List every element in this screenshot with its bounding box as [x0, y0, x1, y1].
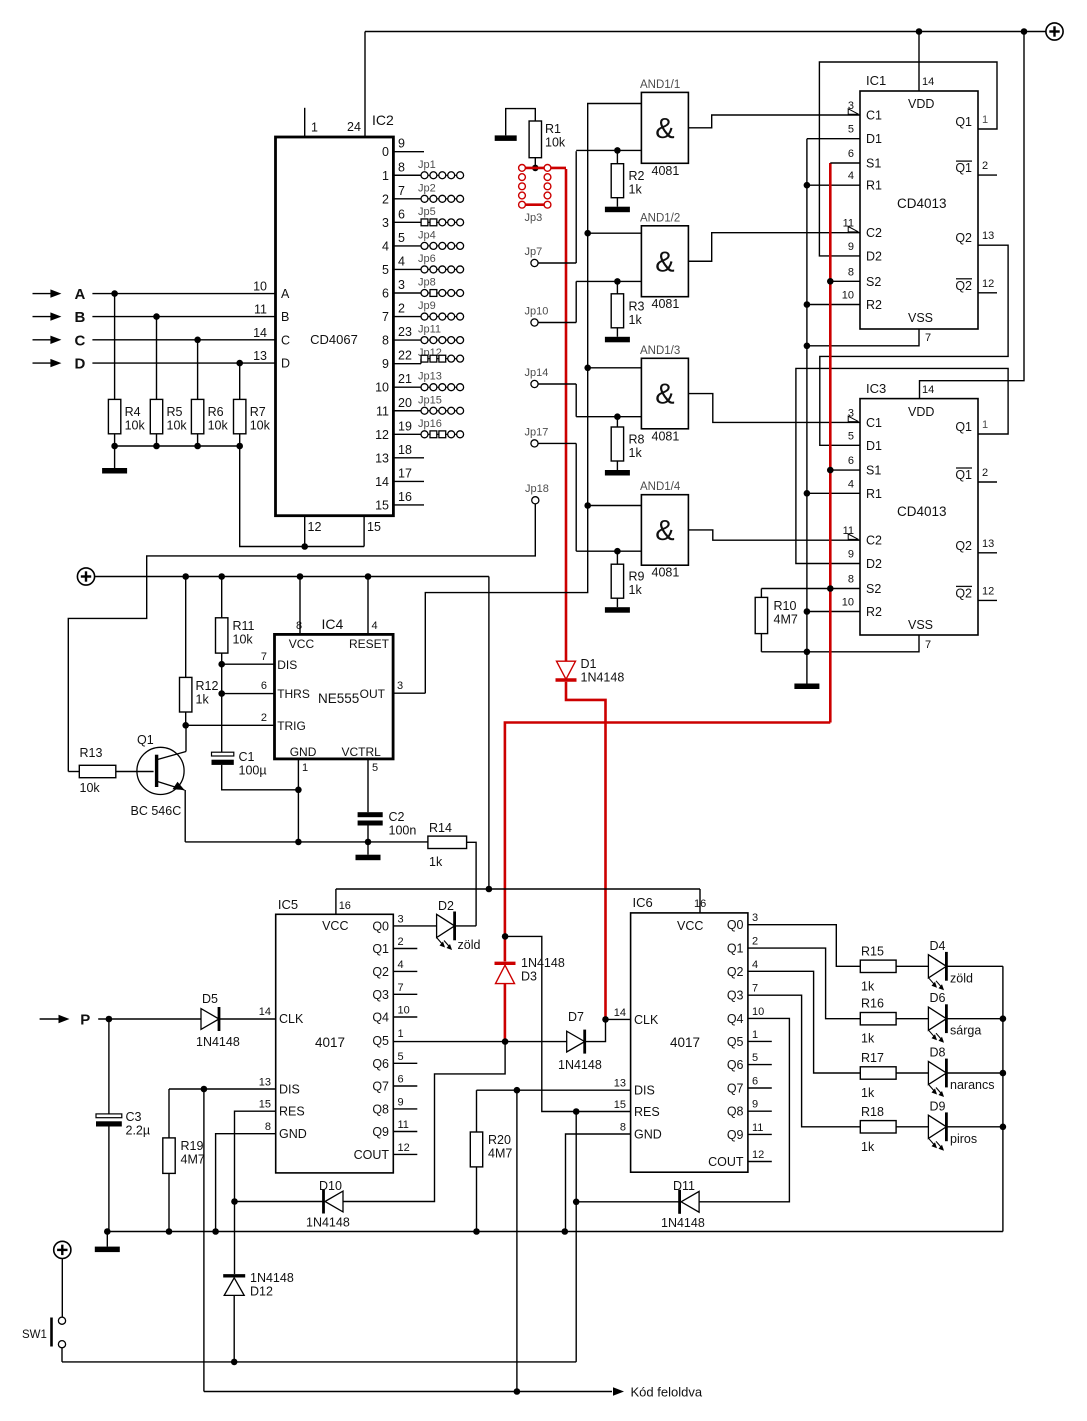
wire Jp14 to gate input	[538, 383, 576, 385]
svg-text:Q4: Q4	[372, 1011, 389, 1025]
svg-text:4: 4	[372, 620, 378, 632]
svg-text:RESET: RESET	[349, 637, 390, 651]
svg-text:DIS: DIS	[634, 1084, 655, 1098]
wire IC4 OUT stub	[393, 692, 425, 694]
svg-text:3: 3	[397, 680, 403, 692]
svg-text:6: 6	[848, 455, 854, 467]
svg-text:10: 10	[253, 280, 267, 294]
svg-text:17: 17	[398, 466, 412, 480]
svg-text:R11: R11	[233, 619, 255, 633]
svg-text:R10: R10	[774, 599, 797, 613]
svg-text:Q7: Q7	[727, 1082, 744, 1096]
svg-text:1N4148: 1N4148	[196, 1035, 240, 1049]
wire +V to SW1	[61, 1259, 63, 1318]
wire red D1 to IC6 CLK	[566, 682, 606, 1020]
node top rail junction IC3 VDD branch	[1021, 28, 1028, 35]
svg-text:16: 16	[694, 898, 706, 910]
svg-text:5: 5	[752, 1052, 758, 1064]
svg-text:AND1/2: AND1/2	[640, 212, 680, 224]
node B tap	[153, 313, 160, 320]
svg-text:10: 10	[375, 381, 389, 395]
svg-text:4081: 4081	[652, 164, 680, 178]
wire input B to IC2 pin 11	[92, 316, 275, 318]
svg-text:R7: R7	[250, 405, 266, 419]
svg-text:VSS: VSS	[908, 618, 933, 632]
svg-text:Q2: Q2	[727, 965, 744, 979]
svg-text:3: 3	[398, 278, 405, 292]
wire bus to AND1/2 input A	[584, 230, 591, 237]
diode D5 1N4148	[201, 1009, 219, 1030]
wire IC4 pin4 RESET	[367, 577, 369, 635]
svg-text:S2: S2	[866, 275, 881, 289]
svg-text:13: 13	[375, 451, 389, 465]
wire Q1 emitter to ground rail	[184, 790, 186, 842]
wire IC2 pin1 stub	[304, 108, 306, 137]
diode D3 1N4148 red	[495, 962, 516, 965]
wire D6 cathode to rail	[946, 1018, 1003, 1020]
node IC6 CLK junction	[602, 1016, 609, 1023]
svg-text:D1: D1	[581, 657, 597, 671]
jumper Jp7	[531, 259, 538, 266]
svg-text:Q2: Q2	[955, 586, 972, 600]
wire IC1 Q1b stub	[978, 174, 997, 176]
svg-text:A: A	[75, 286, 86, 303]
svg-text:1k: 1k	[196, 693, 210, 707]
jumper Jp3 red net	[522, 167, 566, 170]
svg-text:D: D	[281, 357, 290, 371]
svg-text:1: 1	[398, 1028, 404, 1040]
svg-text:6: 6	[398, 207, 405, 221]
svg-text:D2: D2	[438, 899, 454, 913]
wire IC4 VCTRL pin5	[367, 759, 369, 812]
svg-text:Jp4: Jp4	[418, 229, 436, 241]
wire AND1/1 input B row	[576, 149, 641, 151]
wire R11 to THRS	[221, 664, 223, 693]
svg-text:1k: 1k	[629, 313, 643, 327]
wire AND1/2 output to clock	[688, 233, 860, 262]
diode D11 1N4148	[576, 1201, 679, 1203]
wire AND1/4 output to clock	[688, 530, 860, 540]
svg-text:R16: R16	[861, 997, 884, 1011]
wire AND1/3 output to clock	[688, 394, 860, 423]
svg-text:9: 9	[752, 1099, 758, 1111]
svg-text:R17: R17	[861, 1051, 884, 1065]
ground left of R1	[506, 109, 536, 136]
svg-text:Jp15: Jp15	[418, 394, 442, 406]
svg-text:D2: D2	[866, 249, 882, 263]
svg-text:3: 3	[382, 216, 389, 230]
svg-text:Q2: Q2	[955, 231, 972, 245]
svg-text:1N4148: 1N4148	[558, 1058, 602, 1072]
resistor R8 1k	[614, 413, 621, 420]
svg-text:Q2: Q2	[372, 965, 389, 979]
switch SW1	[58, 1317, 65, 1324]
wire IC6 pin16 VCC	[699, 889, 701, 913]
svg-text:4017: 4017	[670, 1035, 700, 1050]
wire IC3 VDD feed	[920, 32, 1025, 399]
ground below R4	[114, 446, 116, 468]
svg-text:12: 12	[398, 1142, 410, 1154]
svg-text:5: 5	[398, 1051, 404, 1063]
svg-text:15: 15	[614, 1099, 626, 1111]
resistor R12 1k	[185, 577, 187, 678]
svg-text:15: 15	[367, 520, 381, 534]
svg-text:14: 14	[922, 384, 934, 396]
node S2 IC1	[827, 278, 834, 285]
wire IC6 DIS to R20	[477, 1089, 631, 1091]
svg-text:Jp3: Jp3	[525, 212, 543, 224]
wire red net Jp3 down to D1	[565, 169, 568, 661]
svg-text:C3: C3	[126, 1110, 142, 1124]
svg-text:15: 15	[259, 1099, 271, 1111]
wire IC2 channel 14 stub	[393, 480, 424, 482]
svg-text:1k: 1k	[629, 446, 643, 460]
wire IC6 Q3 to R18	[748, 995, 860, 1127]
node IC6 RES junction	[573, 1108, 580, 1115]
svg-text:Q0: Q0	[372, 919, 389, 933]
svg-text:4: 4	[848, 170, 854, 182]
svg-text:R15: R15	[861, 944, 884, 958]
svg-text:VCC: VCC	[322, 919, 348, 933]
svg-text:6: 6	[848, 148, 854, 160]
svg-text:4M7: 4M7	[181, 1153, 205, 1167]
node THRS junction	[218, 690, 225, 697]
svg-text:R2: R2	[629, 169, 645, 183]
wire IC3 pin7 VSS line	[761, 635, 919, 652]
ground below R3	[605, 337, 630, 343]
node ground bus R1	[804, 182, 811, 189]
svg-text:S1: S1	[866, 464, 881, 478]
svg-text:C2: C2	[866, 226, 882, 240]
svg-text:C: C	[75, 332, 86, 349]
wire +V rail middle	[95, 576, 489, 578]
svg-text:R19: R19	[181, 1139, 204, 1153]
wire IC5 RES	[235, 1111, 276, 1274]
svg-text:14: 14	[259, 1006, 271, 1018]
ground below R2	[605, 207, 630, 213]
svg-text:sárga: sárga	[950, 1024, 981, 1038]
svg-text:D5: D5	[202, 992, 218, 1006]
svg-text:1k: 1k	[861, 1140, 875, 1154]
svg-text:Q5: Q5	[372, 1034, 389, 1048]
node rail C3	[104, 1228, 111, 1235]
svg-text:1k: 1k	[861, 1086, 875, 1100]
svg-text:1: 1	[982, 114, 988, 126]
wire D7 to IC6 CLK	[585, 1019, 606, 1041]
node rail R19	[166, 1228, 173, 1235]
svg-text:&: &	[655, 515, 674, 547]
svg-text:CLK: CLK	[634, 1013, 659, 1027]
svg-text:narancs: narancs	[950, 1078, 994, 1092]
svg-text:7: 7	[398, 184, 405, 198]
power +V symbol middle left	[77, 568, 94, 585]
svg-text:2: 2	[398, 936, 404, 948]
svg-text:1N4148: 1N4148	[306, 1216, 350, 1230]
svg-text:CD4013: CD4013	[897, 196, 947, 211]
svg-text:Q9: Q9	[727, 1128, 744, 1142]
svg-text:Q1: Q1	[727, 942, 744, 956]
resistor R5 10k	[156, 317, 158, 400]
wire IC5 DIS to R19	[169, 1088, 276, 1090]
svg-text:10k: 10k	[80, 781, 101, 795]
node S1 IC3	[827, 467, 834, 474]
resistor R18 1k	[860, 1121, 896, 1133]
svg-text:R1: R1	[866, 179, 882, 193]
and-gate AND1/3 4081	[641, 358, 688, 429]
counter IC5 4017	[276, 914, 394, 1173]
svg-text:R6: R6	[208, 405, 224, 419]
wire THRS	[222, 693, 275, 695]
svg-text:13: 13	[614, 1078, 626, 1090]
svg-text:24: 24	[347, 120, 361, 134]
wire +V top rail	[365, 31, 1046, 33]
svg-text:10k: 10k	[250, 419, 271, 433]
svg-text:BC 546C: BC 546C	[131, 804, 182, 818]
svg-text:1k: 1k	[429, 855, 443, 869]
svg-text:D11: D11	[673, 1179, 695, 1193]
node A tap	[111, 290, 118, 297]
svg-text:Jp5: Jp5	[418, 206, 436, 218]
wire R14 to D2 cathode	[467, 842, 477, 926]
svg-text:COUT: COUT	[708, 1155, 744, 1169]
svg-text:VDD: VDD	[908, 97, 934, 111]
capacitor C2 100n	[358, 812, 383, 817]
svg-text:7: 7	[925, 639, 931, 651]
wire IC2 channel 15 stub	[393, 504, 424, 506]
svg-text:Q9: Q9	[372, 1125, 389, 1139]
wire SW1 bottom line	[62, 1361, 576, 1363]
svg-text:7: 7	[925, 332, 931, 344]
wire IC6 Q0 to R15	[748, 925, 860, 967]
svg-text:8: 8	[398, 160, 405, 174]
resistor R17 1k	[860, 1067, 896, 1079]
svg-text:9: 9	[398, 1096, 404, 1108]
svg-text:1N4148: 1N4148	[661, 1216, 705, 1230]
svg-text:2: 2	[982, 467, 988, 479]
svg-text:DIS: DIS	[277, 658, 297, 672]
svg-text:10: 10	[752, 1006, 764, 1018]
node GND pin1 junction	[295, 787, 302, 794]
svg-text:5: 5	[398, 231, 405, 245]
wire AND1/4 input B row	[576, 550, 641, 552]
svg-text:1N4148: 1N4148	[250, 1271, 294, 1285]
svg-text:IC2: IC2	[372, 112, 394, 128]
node ground bus VSS IC3 line	[804, 649, 811, 656]
wire main ground rail	[107, 1231, 1003, 1233]
svg-text:13: 13	[982, 538, 994, 550]
wire C3 to ground rail	[108, 1127, 110, 1232]
node VCC feed	[486, 886, 493, 893]
svg-text:1k: 1k	[861, 979, 875, 993]
svg-text:R2: R2	[866, 605, 882, 619]
svg-text:4: 4	[398, 959, 404, 971]
wire DIS down to Kod feloldva line	[203, 1089, 205, 1392]
svg-text:18: 18	[398, 443, 412, 457]
svg-text:3: 3	[752, 912, 758, 924]
svg-text:Q3: Q3	[372, 988, 389, 1002]
wire resistor bottom rail	[115, 445, 240, 447]
svg-text:AND1/1: AND1/1	[640, 79, 680, 91]
svg-text:2.2µ: 2.2µ	[126, 1124, 151, 1138]
svg-text:R5: R5	[167, 405, 183, 419]
wire red S-net horizontal	[505, 723, 830, 962]
svg-text:C1: C1	[866, 416, 882, 430]
svg-text:7: 7	[382, 310, 389, 324]
svg-text:Q2: Q2	[955, 279, 972, 293]
wire SW1 to bottom line	[61, 1348, 63, 1362]
wire IC5 Q5 to D7	[393, 1041, 566, 1043]
wire C1 bottom to GND pin	[222, 765, 299, 790]
svg-text:A: A	[281, 287, 290, 301]
resistor R9 1k	[614, 548, 621, 555]
svg-text:C1: C1	[239, 750, 255, 764]
svg-text:4: 4	[752, 959, 758, 971]
svg-text:R20: R20	[488, 1133, 511, 1147]
wire IC2 channel 13 stub	[393, 457, 424, 459]
resistor R6 10k	[197, 340, 199, 400]
wire IC3 Q2 stub	[978, 552, 997, 554]
diode D7 1N4148	[567, 1031, 585, 1052]
svg-text:9: 9	[848, 549, 854, 561]
node IC6 DIS junction	[514, 1087, 521, 1094]
svg-text:VCTRL: VCTRL	[342, 745, 382, 759]
svg-text:13: 13	[259, 1077, 271, 1089]
wire Q1 collector to TRIG	[185, 725, 187, 751]
ground symbol below IC3	[806, 652, 808, 684]
svg-text:16: 16	[339, 900, 351, 912]
node +V R12	[182, 573, 189, 580]
svg-text:14: 14	[614, 1007, 626, 1019]
diode D6 LED sárga	[928, 1007, 946, 1030]
svg-text:8: 8	[620, 1122, 626, 1134]
svg-text:piros: piros	[950, 1132, 977, 1146]
wire input D to IC2 pin 13	[92, 362, 275, 364]
svg-text:&: &	[655, 379, 674, 411]
svg-text:Jp18: Jp18	[525, 483, 549, 495]
svg-text:CD4013: CD4013	[897, 504, 947, 519]
node +V IC4 RESET	[365, 573, 372, 580]
svg-text:Jp1: Jp1	[418, 159, 436, 171]
svg-text:14: 14	[375, 475, 389, 489]
resistor R4 10k	[114, 294, 116, 400]
svg-text:2: 2	[398, 302, 405, 316]
input arrow C	[33, 339, 52, 341]
svg-text:GND: GND	[290, 745, 317, 759]
wire IC3 Q1b stub	[978, 481, 997, 483]
diode D8 LED narancs	[928, 1061, 946, 1084]
counter IC6 4017	[631, 913, 748, 1172]
wire IC4 pin8 VCC	[299, 577, 301, 635]
svg-text:C2: C2	[389, 810, 405, 824]
wire to IC6 RES path	[505, 936, 630, 1111]
wire bus to AND1/4 input A	[584, 502, 591, 509]
wire AND1/3 input B row	[576, 416, 641, 418]
svg-text:Jp2: Jp2	[418, 182, 436, 194]
node red net to IC6 RES	[502, 933, 509, 940]
svg-text:9: 9	[382, 357, 389, 371]
node rail IC6 GND SW1	[562, 1228, 569, 1235]
ground below R9	[605, 607, 630, 613]
svg-text:Q8: Q8	[372, 1102, 389, 1116]
wire IC6 Q1 to R16	[748, 948, 860, 1019]
wire IC1 Q2b stub	[978, 292, 997, 294]
svg-text:&: &	[655, 113, 674, 145]
svg-text:3: 3	[398, 913, 404, 925]
jumper Jp14	[531, 380, 538, 387]
svg-text:8: 8	[296, 620, 302, 632]
svg-text:AND1/4: AND1/4	[640, 481, 681, 493]
wire D12 to SW1 line	[233, 1295, 235, 1362]
svg-text:DIS: DIS	[279, 1083, 300, 1097]
svg-text:COUT: COUT	[354, 1148, 390, 1162]
wire +V to IC5 IC6 VCC	[488, 577, 490, 890]
svg-text:D2: D2	[866, 557, 882, 571]
resistor R15 1k	[860, 960, 896, 972]
svg-text:C2: C2	[866, 534, 882, 548]
resistor R1 10k	[529, 121, 541, 158]
svg-text:8: 8	[848, 266, 854, 278]
svg-text:D10: D10	[319, 1179, 342, 1193]
diode D12 1N4148	[223, 1274, 245, 1277]
node LED rail D8	[1000, 1070, 1007, 1077]
svg-text:R1: R1	[545, 122, 561, 136]
svg-text:6: 6	[752, 1076, 758, 1088]
node R1 bottom / Jp3	[532, 165, 539, 172]
svg-text:7: 7	[752, 983, 758, 995]
svg-text:R2: R2	[866, 298, 882, 312]
svg-text:12: 12	[375, 428, 389, 442]
svg-text:Q2: Q2	[955, 539, 972, 553]
svg-text:Q3: Q3	[727, 989, 744, 1003]
and-gate AND1/4 4081	[641, 495, 688, 566]
svg-text:8: 8	[848, 574, 854, 586]
svg-text:IC4: IC4	[322, 616, 344, 632]
wire R17 to D8	[896, 1072, 928, 1074]
wire VCC line IC5 IC6	[336, 888, 700, 890]
svg-text:11: 11	[752, 1122, 763, 1134]
wire IC1 pin7 VSS to ground bus	[807, 329, 919, 346]
diode D4 LED zöld	[928, 955, 946, 978]
flip-flop IC3 CD4013	[860, 399, 978, 635]
wire IC1 Q1 feedback to D2	[819, 62, 997, 256]
svg-text:Q4: Q4	[727, 1012, 744, 1026]
svg-text:IC3: IC3	[866, 381, 886, 396]
svg-text:1: 1	[302, 762, 308, 774]
node ground rail pin1	[295, 839, 302, 846]
svg-text:10k: 10k	[167, 419, 188, 433]
svg-text:R1: R1	[866, 487, 882, 501]
resistor R3 1k	[614, 278, 621, 285]
svg-text:CD4067: CD4067	[310, 332, 358, 347]
wire D8 cathode to rail	[946, 1072, 1003, 1074]
node LED rail D9	[1000, 1124, 1007, 1131]
svg-text:9: 9	[848, 241, 854, 253]
svg-text:10: 10	[398, 1005, 410, 1017]
svg-text:Jp14: Jp14	[525, 367, 549, 379]
wire D4 cathode to rail	[946, 965, 1003, 967]
svg-text:RES: RES	[279, 1105, 305, 1119]
node ground rail C2	[365, 839, 372, 846]
wire IC2 channel 0 stub	[393, 151, 424, 153]
svg-text:R3: R3	[629, 299, 645, 313]
resistor R13 10k	[68, 771, 79, 773]
power +V symbol bottom left	[54, 1241, 71, 1258]
svg-text:6: 6	[382, 287, 389, 301]
svg-text:IC1: IC1	[866, 73, 886, 88]
diode D1 1N4148 red	[557, 661, 576, 679]
svg-text:1k: 1k	[861, 1032, 875, 1046]
diode D9 LED piros	[928, 1115, 946, 1138]
